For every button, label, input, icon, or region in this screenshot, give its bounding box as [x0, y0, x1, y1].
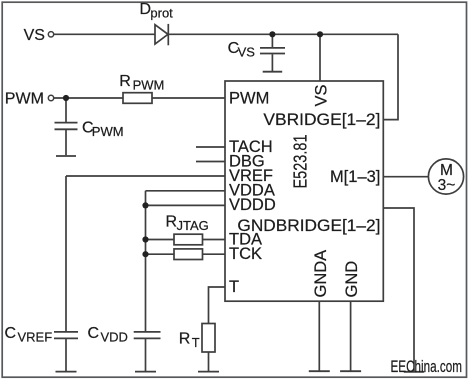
svg-text:TCK: TCK [229, 245, 262, 263]
svg-text:GND: GND [343, 261, 361, 298]
svg-text:R: R [179, 331, 191, 348]
svg-text:GNDA: GNDA [312, 250, 330, 298]
svg-text:R: R [166, 213, 178, 230]
svg-text:D: D [140, 1, 152, 18]
svg-text:VS: VS [313, 84, 331, 106]
svg-text:JTAG: JTAG [177, 218, 209, 233]
svg-text:PWM: PWM [92, 124, 124, 139]
svg-text:VS: VS [24, 27, 45, 44]
svg-text:PWM: PWM [133, 78, 165, 93]
svg-text:VDDD: VDDD [229, 196, 276, 214]
svg-text:R: R [119, 73, 131, 90]
svg-text:C: C [88, 325, 100, 342]
svg-text:T: T [229, 278, 239, 296]
svg-text:VREF: VREF [18, 330, 53, 345]
svg-text:VDD: VDD [101, 330, 128, 345]
svg-text:GNDBRIDGE[1–2]: GNDBRIDGE[1–2] [237, 217, 380, 235]
svg-text:prot: prot [150, 6, 173, 21]
svg-text:VBRIDGE[1–2]: VBRIDGE[1–2] [263, 111, 380, 129]
svg-text:EEChina.com: EEChina.com [391, 358, 463, 376]
svg-text:E523.81: E523.81 [291, 135, 311, 189]
svg-text:C: C [5, 325, 17, 342]
svg-text:PWM: PWM [5, 90, 44, 107]
svg-text:VS: VS [238, 45, 256, 60]
svg-text:M[1–3]: M[1–3] [330, 168, 380, 186]
svg-text:T: T [192, 335, 200, 350]
svg-text:PWM: PWM [229, 90, 269, 108]
svg-text:3~: 3~ [438, 177, 456, 194]
